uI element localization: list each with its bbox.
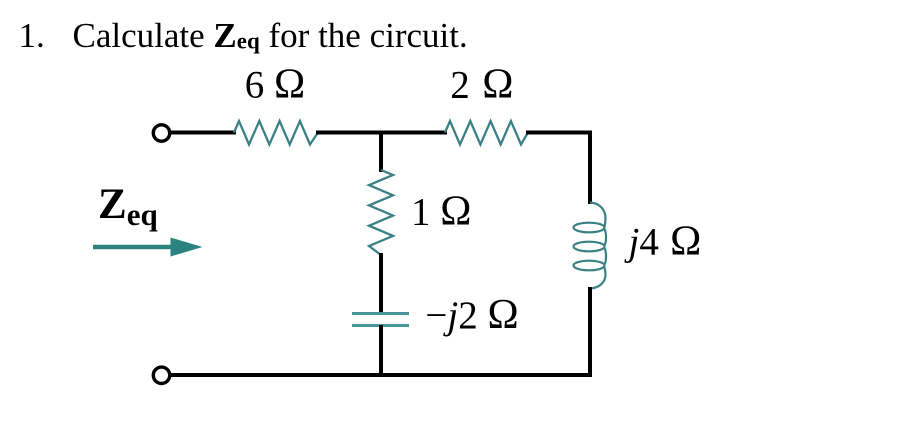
terminal top-left (open circle) [153, 125, 169, 141]
label -j2 ohm [425, 292, 518, 338]
label Zeq (impedance looking into terminals) [98, 183, 158, 230]
label 6 ohm [245, 62, 305, 108]
label 2 ohm [450, 62, 513, 108]
capacitor -j2ohm (two plates) [352, 314, 409, 326]
wire: middle branch R 1ohm to capacitor [379, 253, 383, 314]
resistor 2ohm (zigzag) [445, 121, 528, 145]
title number "1." [19, 18, 45, 53]
svg-text:j4 Ω: j4 Ω [624, 218, 702, 264]
wire: right branch upper (corner down to inductor) [588, 131, 592, 205]
arrow for Zeq (teal) [93, 238, 203, 257]
label 1 ohm [411, 189, 471, 235]
wire: capacitor to bottom rail [379, 325, 383, 377]
inductor j4ohm (coil) [574, 203, 607, 289]
title text "Calculate Zeq for the circuit." [73, 18, 468, 53]
svg-text:2 Ω: 2 Ω [450, 62, 513, 108]
label j4 ohm [624, 218, 702, 264]
svg-text:6 Ω: 6 Ω [245, 62, 305, 108]
bottom rail wire [169, 373, 592, 377]
svg-text:1 Ω: 1 Ω [411, 189, 471, 235]
resistor 6ohm (zigzag) [234, 121, 318, 145]
wire: right branch lower (inductor to bottom-right corner) [588, 287, 592, 377]
terminal bottom-left (open circle) [153, 367, 169, 383]
wire: top-left terminal to R 6ohm [169, 131, 236, 135]
resistor 1ohm (vertical zigzag, middle branch) [369, 170, 393, 255]
wire: R 2ohm to top-right corner [526, 131, 592, 135]
node A junction stub (top of middle branch) [379, 132, 383, 172]
wire: R 6ohm to node A / R 2ohm [316, 131, 447, 135]
svg-text:−j2 Ω: −j2 Ω [425, 292, 518, 338]
